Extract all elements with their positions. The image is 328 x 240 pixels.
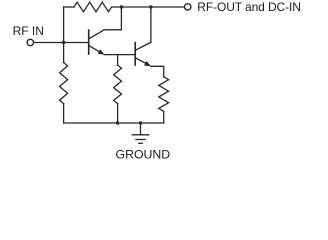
transistor Q2 — [135, 42, 151, 66]
svg-text:GROUND: GROUND — [116, 147, 171, 161]
node top rail Q2 collector dot — [149, 5, 152, 8]
svg-text:RF IN: RF IN — [13, 24, 44, 38]
wire Q2 emitter to R4 — [151, 66, 164, 77]
wire input terminal to node — [34, 42, 64, 44]
wire top rail left segment — [64, 6, 74, 8]
wire top rail right segment — [112, 6, 185, 8]
node bottom rail ground dot — [139, 121, 142, 124]
input terminal — [27, 39, 33, 45]
wire node to Q1 base — [64, 42, 89, 44]
resistor R4 emitter — [159, 77, 169, 123]
node top rail Q1 collector dot — [120, 5, 123, 8]
wire input node up to top rail — [63, 7, 65, 43]
svg-text:RF-OUT and DC-IN: RF-OUT and DC-IN — [197, 0, 301, 14]
node bottom rail R3 dot — [116, 121, 119, 124]
node input junction dot — [62, 41, 65, 44]
wire Q1 emitter to Q2 base — [104, 54, 134, 56]
wire Q2 collector to top rail — [150, 7, 152, 42]
resistor R2 input shunt — [60, 43, 68, 124]
wire Q1 collector to top rail — [104, 7, 121, 30]
output terminal — [185, 4, 191, 10]
resistor R1 feedback — [74, 2, 112, 12]
wire bottom rail — [64, 122, 164, 124]
transistor Q1 — [89, 30, 105, 55]
ground — [132, 123, 148, 143]
resistor R3 bias — [114, 55, 122, 123]
